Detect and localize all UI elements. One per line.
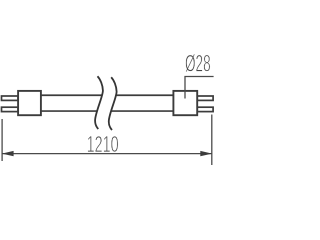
left pin top (G13) — [2, 96, 19, 100]
svg-text:1210: 1210 — [87, 131, 119, 157]
left end cap — [18, 91, 41, 115]
tube body bottom line — [41, 110, 174, 112]
dimension line — [2, 153, 212, 155]
dimension arrow left — [2, 151, 14, 156]
right extension line — [211, 115, 213, 166]
break gap white band — [95, 76, 117, 130]
left pin bottom (G13) — [2, 107, 19, 111]
right pin bottom (G13) — [197, 107, 213, 111]
dimension arrow right — [200, 151, 212, 156]
right pin top (G13) — [197, 96, 213, 100]
left extension line — [1, 119, 3, 161]
svg-text:Ø28: Ø28 — [185, 51, 211, 78]
tube body top line — [41, 94, 174, 96]
break squiggle right — [109, 77, 117, 130]
diameter leader line — [185, 77, 214, 99]
break squiggle left — [95, 76, 103, 129]
right end cap — [173, 91, 197, 115]
